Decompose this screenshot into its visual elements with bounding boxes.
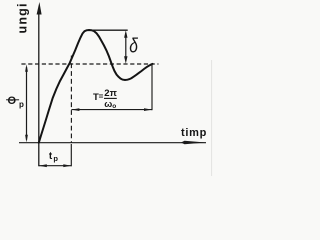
T period dimension line bbox=[71, 109, 152, 111]
x-axis (timp axis) bbox=[19, 142, 206, 144]
fraction bar bbox=[104, 97, 117, 99]
theta bar extension bbox=[6, 99, 19, 101]
overshoot delta dimension arrow bbox=[125, 33, 127, 61]
svg-text:p: p bbox=[19, 100, 24, 109]
dashed steady-state level line bbox=[21, 63, 158, 65]
response curve bbox=[39, 30, 153, 143]
tp dimension line bbox=[39, 165, 72, 167]
svg-text:=: = bbox=[99, 92, 104, 101]
svg-text:2π: 2π bbox=[104, 88, 117, 99]
svg-text:timp: timp bbox=[181, 127, 207, 139]
y-axis (unghi axis) bbox=[38, 13, 40, 166]
tp extension line solid below axis bbox=[70, 144, 72, 166]
peak level extension line bbox=[91, 29, 128, 31]
svg-text:ungi: ungi bbox=[16, 2, 30, 33]
svg-text:o: o bbox=[112, 103, 116, 110]
svg-text:δ: δ bbox=[129, 35, 139, 57]
dashed vertical line at tp bbox=[70, 56, 72, 143]
svg-text:ω: ω bbox=[104, 99, 112, 110]
theta_p dimension arrow bbox=[26, 67, 28, 140]
svg-text:p: p bbox=[53, 154, 58, 163]
y-axis arrowhead bbox=[37, 2, 42, 15]
T right extension line bbox=[151, 64, 153, 110]
svg-text:Θ: Θ bbox=[8, 95, 17, 107]
x-axis arrowhead bbox=[181, 141, 206, 145]
scan edge shading right bbox=[211, 60, 212, 176]
